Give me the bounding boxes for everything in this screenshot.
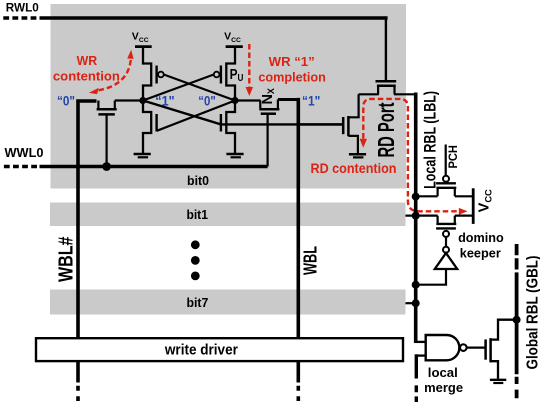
svg-text:keeper: keeper (460, 246, 501, 261)
wire RWL0 drop to RD port gate (385, 18, 387, 80)
svg-text:bit0: bit0 (187, 173, 209, 188)
bit0 cell gray box (51, 4, 407, 189)
Vcc bar keeper (472, 188, 475, 224)
inverter left (pull-up + pull-down) (143, 47, 151, 153)
ground GBL NMOS (490, 379, 506, 381)
RD port gate wire (300, 123, 343, 125)
NAND gate local merge (426, 335, 460, 360)
junction dot WWL0/left access gate (102, 162, 111, 171)
svg-text:Local RBL (LBL): Local RBL (LBL) (421, 91, 439, 189)
WWL0 dashed stub (4, 165, 40, 168)
NAND input B net from below (416, 354, 425, 356)
wire access to left node (115, 99, 143, 101)
WBL dashed end (296, 386, 300, 401)
junction dot GBL (513, 316, 521, 324)
svg-text:write driver: write driver (164, 343, 238, 359)
right NMOS gate (220, 114, 222, 132)
inverter right (pull-up Pu + pull-down) (226, 47, 235, 153)
WBL# label (56, 237, 78, 283)
svg-text:“1": “1" (155, 94, 174, 109)
svg-text:domino: domino (458, 230, 504, 245)
ground left inverter (134, 153, 151, 156)
svg-text:RD Port: RD Port (373, 102, 399, 157)
svg-text:WWL0: WWL0 (5, 146, 44, 160)
cross-coupling wires (143, 75, 214, 101)
RD port lower NMOS (343, 94, 358, 153)
bit7 gray row (50, 290, 406, 315)
svg-text:RWL0: RWL0 (6, 1, 39, 15)
node dot right (231, 97, 238, 104)
node dot left (139, 97, 146, 104)
junction dot LBL/bit7 (412, 299, 420, 307)
wire WBL# top elbow (78, 101, 97, 339)
svg-text:WR: WR (77, 53, 98, 68)
ground right inverter (226, 153, 243, 156)
keeper inverter (445, 237, 447, 246)
WBL# stub below write driver (76, 361, 80, 383)
Nx label (260, 88, 276, 105)
svg-text:bit7: bit7 (186, 295, 208, 310)
WBL label (300, 246, 321, 275)
ground RD port (349, 153, 366, 156)
write driver box (36, 338, 403, 361)
wire right node to Nx (235, 99, 261, 101)
ellipsis dots (191, 240, 200, 249)
GBL pull-down NMOS (486, 320, 515, 379)
RWL0 dashed stub (3, 16, 39, 19)
junction dot LBL/keeper (412, 212, 420, 220)
svg-text:WBL#: WBL# (56, 237, 78, 283)
PCH gate bubble (443, 176, 449, 182)
LBL lower dashed (415, 385, 418, 402)
keeper PMOS (406, 216, 473, 229)
svg-text:contention: contention (53, 68, 120, 83)
bit1 gray row (50, 203, 406, 227)
PCH PMOS (417, 183, 473, 196)
svg-text:WBL: WBL (300, 246, 321, 275)
svg-text:WR “1”: WR “1” (269, 54, 315, 69)
left PMOS gate (155, 66, 157, 84)
svg-text:“0": “0" (57, 93, 75, 108)
svg-text:merge: merge (424, 380, 463, 395)
wire RWL0 (40, 16, 388, 19)
PCH label (446, 145, 460, 169)
svg-text:Global RBL (GBL): Global RBL (GBL) (524, 256, 540, 370)
svg-text:“1": “1" (302, 93, 320, 108)
access transistor Nx (259, 100, 279, 167)
red RD contention loop (363, 99, 457, 211)
WBL stub below write driver (296, 361, 300, 383)
WBL line (296, 98, 300, 339)
wire WWL0 (40, 165, 268, 168)
svg-text:RD contention: RD contention (311, 161, 397, 176)
left NMOS gate (155, 114, 157, 132)
svg-text:“0": “0" (198, 94, 216, 109)
svg-text:PCH: PCH (446, 145, 460, 169)
GBL dashed bottom (515, 377, 519, 398)
NAND input A stub (414, 341, 426, 343)
svg-text:bit1: bit1 (186, 207, 208, 222)
GBL line (515, 279, 519, 375)
Global RBL (GBL) label (524, 256, 540, 370)
access transistor left (write pass) (97, 101, 117, 167)
svg-text:local: local (428, 365, 458, 380)
RD Port label (373, 102, 399, 157)
right PMOS gate (220, 66, 222, 84)
svg-text:completion: completion (258, 70, 326, 85)
junction dot LBL/inverter input (412, 281, 420, 289)
GBL dashed top (515, 244, 519, 279)
bit7 row stub (406, 302, 416, 304)
WBL# dashed end (76, 386, 80, 401)
PCH stub (445, 145, 447, 176)
wire Nx to WBL (278, 98, 299, 101)
RD port upper NMOS (RWL0 gated) (359, 81, 417, 94)
Local RBL (LBL) label (421, 91, 439, 189)
LBL line (414, 93, 418, 344)
junction dot LBL/PCH (412, 193, 420, 201)
